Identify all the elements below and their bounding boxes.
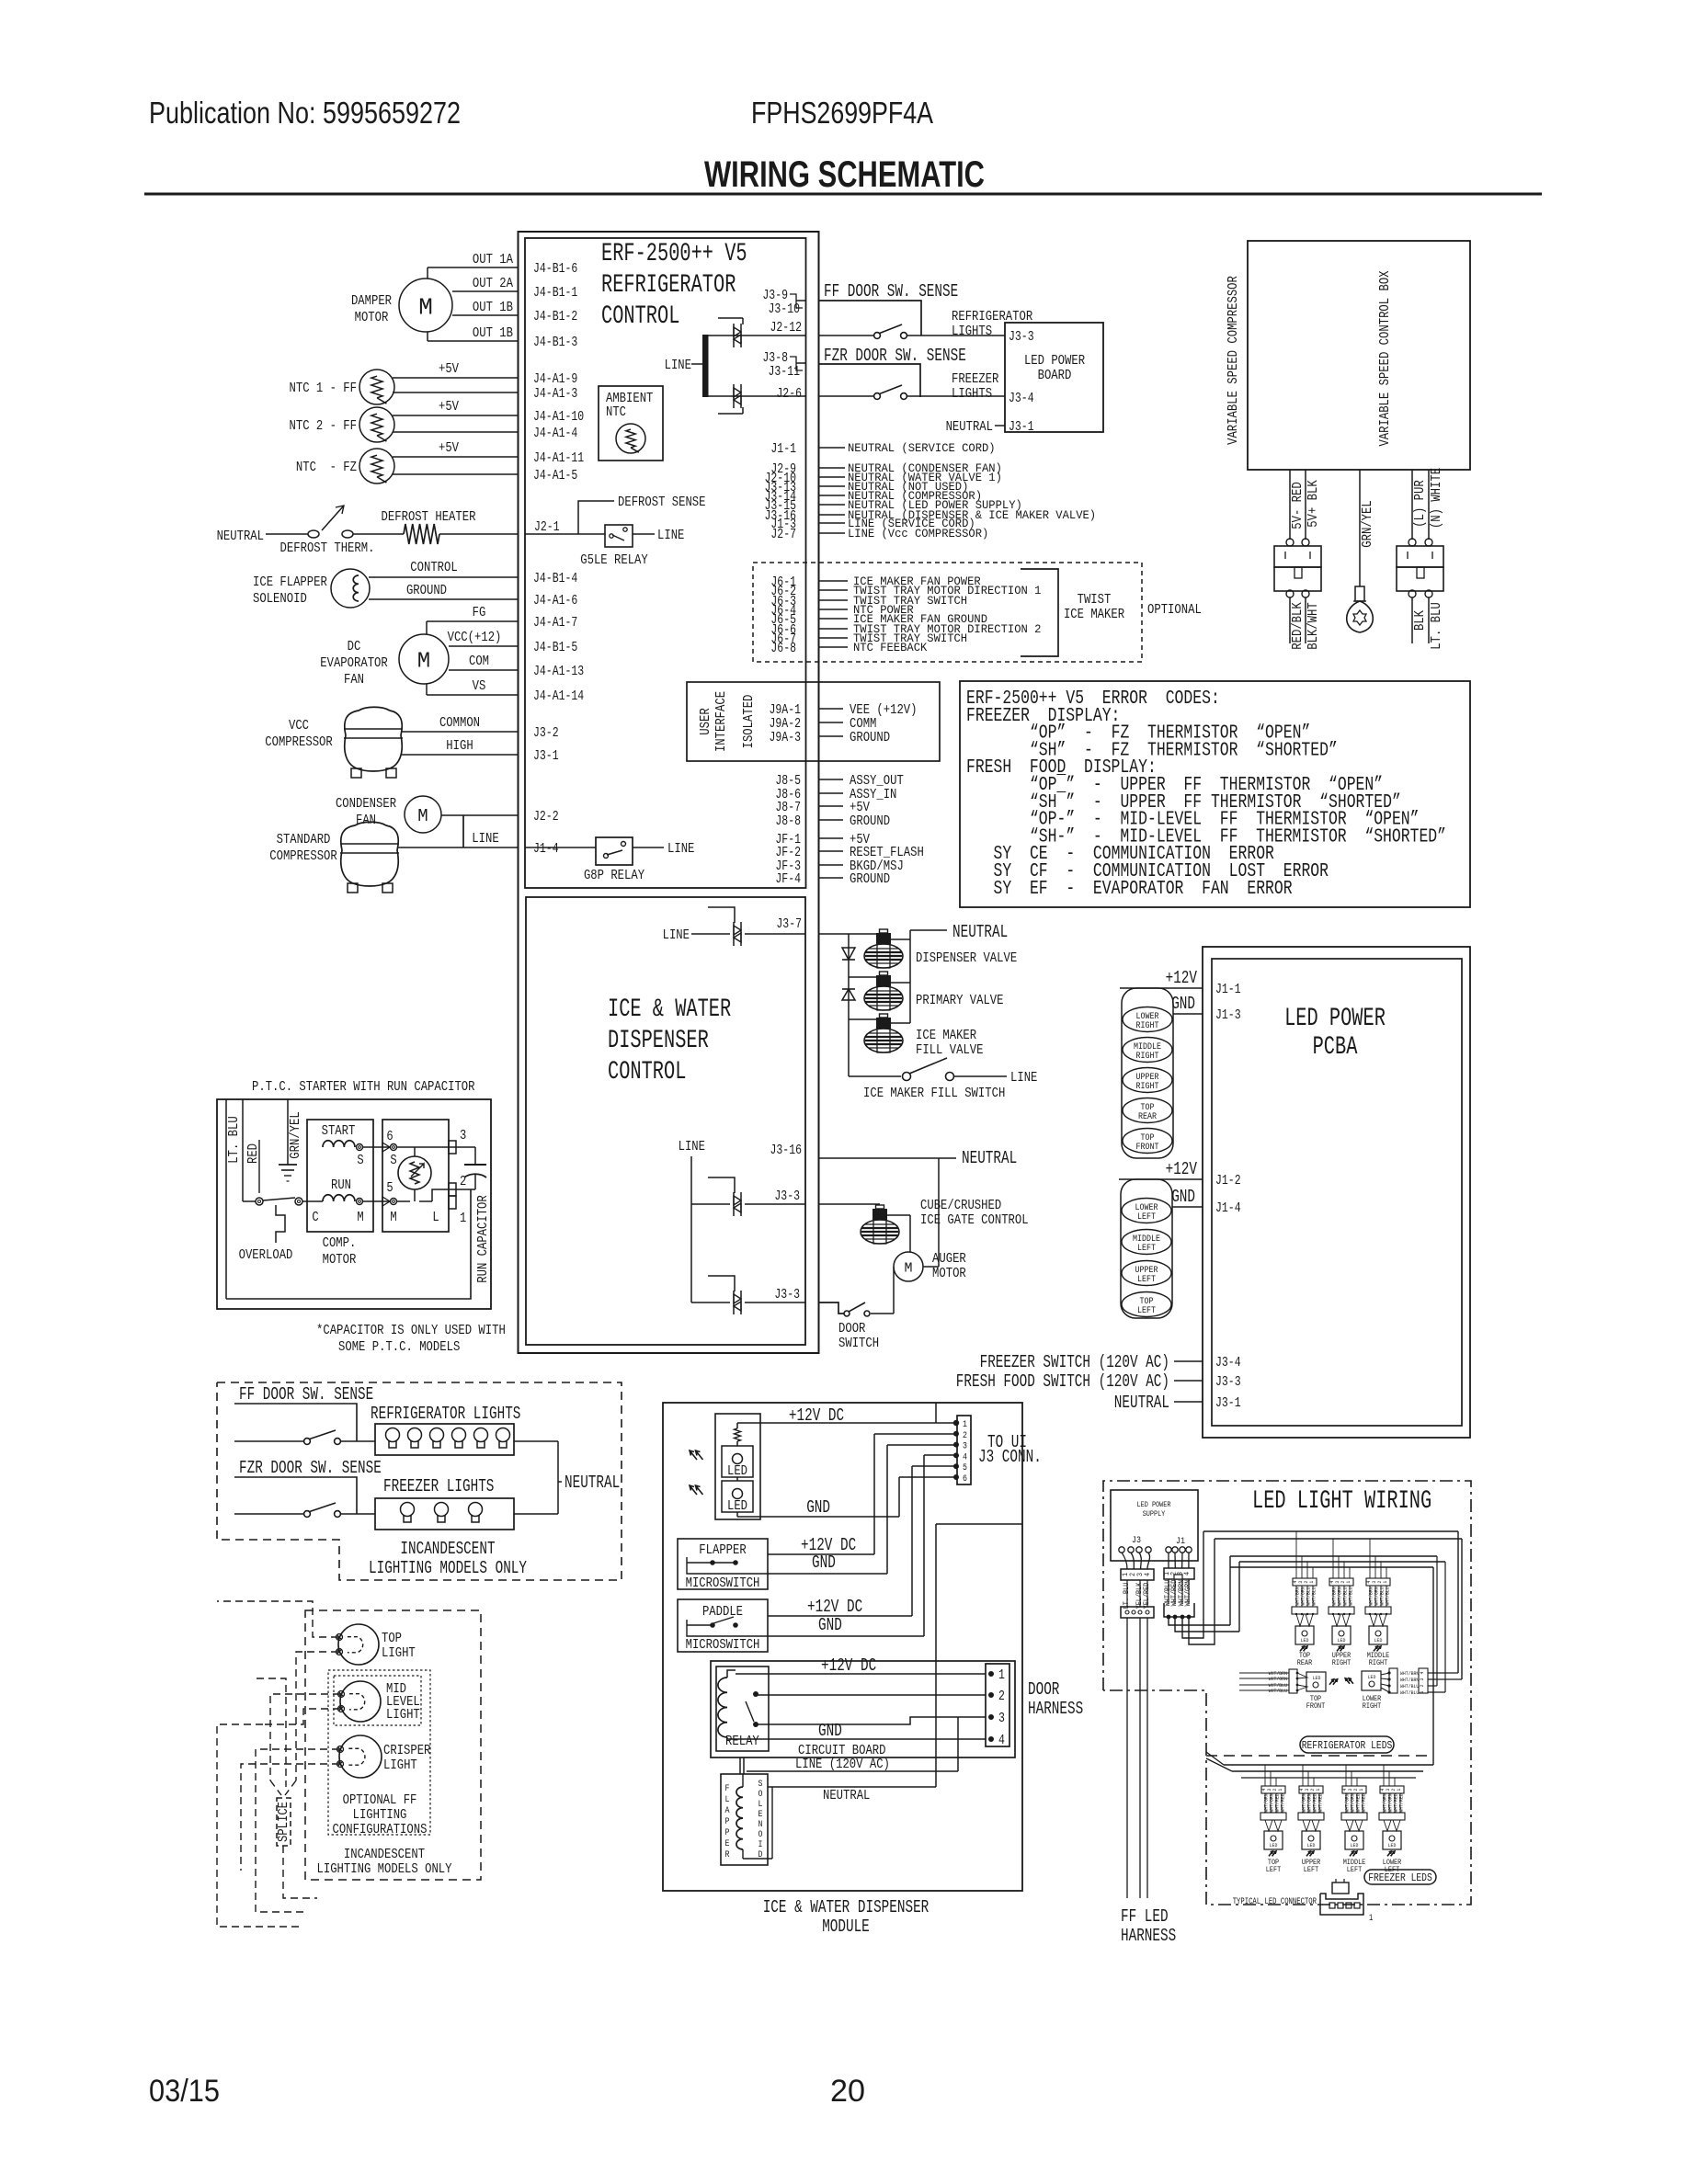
svg-text:S: S (390, 1153, 396, 1168)
svg-text:5V+ BLK: 5V+ BLK (1306, 480, 1321, 527)
svg-text:LED POWER: LED POWER (1024, 353, 1085, 369)
wire S to ptc (363, 1146, 390, 1148)
splice arrows (257, 1678, 286, 1787)
svg-text:WHT/RED: WHT/RED (1279, 1793, 1285, 1813)
svg-text:SOLENOID: SOLENOID (253, 591, 307, 607)
svg-text:NEUTRAL: NEUTRAL (952, 922, 1008, 942)
resistor led (735, 1428, 741, 1441)
wire FZR sense (818, 364, 920, 397)
svg-text:LED: LED (1270, 1842, 1278, 1848)
svg-text:GND: GND (1171, 1187, 1195, 1207)
svg-text:SWITCH: SWITCH (838, 1336, 879, 1351)
svg-text:ICE MAKER FILL SWITCH: ICE MAKER FILL SWITCH (863, 1086, 1005, 1101)
thermistor NTC 1 - FF (359, 370, 394, 404)
node LINE bar (702, 335, 709, 397)
top light lamp (338, 1624, 379, 1665)
svg-text:O: O (758, 1830, 763, 1840)
wire J3-3 out gate (818, 1203, 880, 1205)
svg-text:GND: GND (812, 1553, 836, 1573)
ice maker fill switch (849, 1075, 901, 1077)
svg-text:INTERFACE: INTERFACE (713, 691, 729, 752)
svg-text:LEFT: LEFT (1137, 1275, 1156, 1285)
stadium FREEZER LEDS (1364, 1870, 1436, 1884)
wire line 120 (739, 1757, 741, 1774)
svg-text:P.T.C. STARTER WITH RUN CAPACI: P.T.C. STARTER WITH RUN CAPACITOR (252, 1079, 475, 1095)
svg-text:FF LED: FF LED (1121, 1906, 1169, 1927)
svg-text:LINE (120V AC): LINE (120V AC) (795, 1757, 890, 1772)
triac T5 (733, 1291, 735, 1314)
triac T4 (733, 1192, 735, 1216)
svg-text:LED: LED (1338, 1637, 1346, 1644)
led module UPPER RIGHT (1329, 1578, 1354, 1667)
wire (L) PUR (1411, 470, 1413, 540)
svg-text:4: 4 (998, 1734, 1005, 1748)
svg-text:+12V DC: +12V DC (821, 1655, 876, 1676)
wire M to ptc (363, 1200, 390, 1202)
svg-text:RIGHT: RIGHT (1332, 1659, 1352, 1667)
svg-text:EVAPORATOR: EVAPORATOR (320, 655, 388, 671)
svg-text:DEFROST HEATER: DEFROST HEATER (382, 509, 476, 525)
svg-text:LIGHT: LIGHT (383, 1757, 417, 1773)
switch fzr incand (304, 1511, 311, 1518)
wire NTC2 return (393, 431, 519, 433)
wire neutral to J3-1 (995, 425, 1005, 427)
wire LT. BLU (225, 1099, 227, 1299)
wire J2-12 feed (708, 335, 805, 336)
svg-text:FAN: FAN (356, 813, 376, 828)
svg-text:NEUTRAL: NEUTRAL (217, 529, 264, 544)
door harness connector (986, 1664, 1009, 1746)
svg-text:J2-12: J2-12 (770, 321, 803, 336)
led unit box (715, 1414, 760, 1519)
svg-text:6: 6 (963, 1474, 967, 1484)
wire RED/BLK (1289, 597, 1291, 643)
svg-text:OVERLOAD: OVERLOAD (239, 1247, 293, 1263)
right LED connector stack (1122, 988, 1173, 1158)
dashed wire top light (217, 1601, 338, 1637)
svg-text:J2-6: J2-6 (776, 387, 802, 402)
wires to UI pins (874, 1433, 956, 1435)
twist ice maker bracket (1021, 569, 1058, 656)
svg-text:MICROSWITCH: MICROSWITCH (686, 1637, 760, 1653)
svg-text:J1-1: J1-1 (1215, 983, 1241, 997)
wire NTC-FZ return (393, 473, 519, 475)
J1 supply pins (1166, 1547, 1171, 1553)
svg-text:NTC 2 - FF: NTC 2 - FF (290, 418, 358, 434)
wire fzr sense incand (234, 1477, 357, 1514)
svg-text:J1-4: J1-4 (533, 842, 559, 857)
svg-text:RUN: RUN (331, 1177, 351, 1193)
wire fzr switch row (234, 1513, 303, 1515)
svg-text:J1-2: J1-2 (1215, 1174, 1241, 1189)
DC evaporator fan motor (399, 634, 449, 684)
dashed wire splice down (283, 1846, 317, 1898)
svg-text:JF-2: JF-2 (775, 846, 801, 860)
svg-text:O: O (758, 1790, 763, 1800)
bulb refrigerator (452, 1428, 466, 1442)
left LED connector stack (1121, 1179, 1172, 1318)
svg-text:CONTROL: CONTROL (601, 302, 679, 331)
svg-text:20: 20 (830, 2074, 865, 2109)
svg-text:REFRIGERATOR LIGHTS: REFRIGERATOR LIGHTS (371, 1404, 520, 1424)
led power pcba outer box (1203, 947, 1470, 1438)
optional configurations dotted box (328, 1670, 430, 1835)
terminal 3 (449, 1141, 456, 1154)
svg-text:LINE: LINE (679, 1139, 705, 1155)
svg-text:GROUND: GROUND (850, 730, 890, 745)
svg-text:J3-9: J3-9 (762, 289, 788, 303)
wire J3-3 to door switch (818, 1302, 844, 1314)
bulb refrigerator (408, 1428, 422, 1442)
svg-text:DEFROST SENSE: DEFROST SENSE (618, 495, 706, 510)
svg-text:1: 1 (963, 1420, 967, 1430)
dashed bus left (217, 1724, 299, 1927)
svg-text:CONFIGURATIONS: CONFIGURATIONS (333, 1822, 428, 1837)
svg-text:PADDLE: PADDLE (702, 1604, 743, 1620)
svg-text:WHT/BLU: WHT/BLU (1347, 1587, 1353, 1605)
dispenser valve (880, 929, 888, 933)
wire OUT 1B lower (428, 340, 519, 342)
svg-text:MOTOR: MOTOR (323, 1252, 357, 1268)
incandescent dashed box (217, 1382, 622, 1580)
svg-text:ICE MAKER: ICE MAKER (1064, 607, 1124, 622)
refrigerator control inner box (525, 238, 806, 888)
wire compressor LINE (398, 847, 519, 848)
svg-text:DISPENSER VALVE: DISPENSER VALVE (916, 950, 1017, 966)
svg-text:COMMON: COMMON (439, 715, 480, 731)
svg-text:I: I (758, 1840, 763, 1850)
refrigerator lights box (375, 1424, 514, 1455)
svg-text:LED: LED (1307, 1842, 1316, 1848)
svg-text:RUN CAPACITOR: RUN CAPACITOR (475, 1195, 491, 1283)
LED power board box (1005, 323, 1103, 432)
svg-text:J4-A1-3: J4-A1-3 (533, 387, 577, 402)
svg-text:J1-3: J1-3 (1215, 1008, 1241, 1023)
dashed wire crisper (256, 1749, 339, 1912)
wire BLK (1411, 597, 1413, 643)
svg-text:LINE: LINE (663, 927, 690, 943)
svg-text:J9A-2: J9A-2 (770, 717, 802, 732)
svg-text:REAR: REAR (1297, 1659, 1313, 1667)
ice maker fill valve (880, 1014, 888, 1018)
svg-text:4: 4 (963, 1452, 967, 1462)
svg-text:6: 6 (386, 1129, 393, 1144)
dashed divider (1206, 1755, 1431, 1757)
LED D1 module (722, 1446, 753, 1477)
svg-text:ERF-2500++ V5: ERF-2500++ V5 (601, 240, 747, 268)
svg-text:3: 3 (963, 1442, 967, 1452)
svg-text:J3-11: J3-11 (769, 365, 801, 380)
svg-text:LED LIGHT WIRING: LED LIGHT WIRING (1252, 1487, 1431, 1516)
svg-text:FG: FG (473, 605, 486, 620)
svg-text:L: L (758, 1800, 763, 1810)
svg-text:+12V: +12V (1166, 968, 1198, 988)
svg-text:LINE: LINE (1010, 1070, 1037, 1086)
svg-text:CRISPER: CRISPER (383, 1743, 430, 1758)
svg-text:S: S (357, 1153, 363, 1168)
svg-text:J4-B1-5: J4-B1-5 (533, 641, 577, 655)
svg-text:LT. BLU: LT. BLU (1429, 602, 1444, 649)
svg-text:TYPICAL LED CONNECTOR: TYPICAL LED CONNECTOR (1233, 1897, 1317, 1907)
svg-text:5V- RED: 5V- RED (1290, 482, 1306, 529)
thermistor NTC 2 - FF (359, 407, 394, 442)
wire LINE to triac auger (691, 1302, 730, 1303)
svg-text:S: S (758, 1780, 763, 1790)
bulb refrigerator (430, 1428, 444, 1442)
svg-text:START: START (322, 1123, 356, 1139)
wire (N) WHITE (1428, 470, 1430, 540)
svg-text:J3-8: J3-8 (762, 351, 788, 366)
ice water dispenser control box (526, 897, 805, 1345)
svg-text:ICE & WATER: ICE & WATER (608, 995, 731, 1024)
wire G8P LINE (633, 847, 664, 848)
led module LOWER LEFT (1379, 1786, 1405, 1874)
svg-text:J3-3: J3-3 (1009, 330, 1034, 345)
wire valve to bus (886, 1214, 910, 1216)
svg-text:RIGHT: RIGHT (1369, 1659, 1388, 1667)
ambient NTC box (599, 386, 663, 461)
J1 harness connector (1164, 1603, 1194, 1617)
wire OUT 1B (452, 314, 519, 316)
wire J2-6 to switch (818, 395, 873, 397)
svg-text:OUT 1B: OUT 1B (473, 300, 513, 315)
svg-text:J4-A1-14: J4-A1-14 (533, 689, 584, 704)
led module MIDDLE RIGHT (1365, 1578, 1391, 1667)
svg-text:TOP: TOP (382, 1631, 402, 1646)
wire RED (242, 1099, 244, 1201)
svg-text:DOOR: DOOR (1028, 1679, 1060, 1700)
svg-text:REFRIGERATOR: REFRIGERATOR (601, 271, 736, 300)
svg-text:LEFT: LEFT (1266, 1866, 1282, 1874)
wire terminal1 bottom (226, 1189, 471, 1299)
node valve column (848, 934, 850, 1076)
svg-text:J4-B1-6: J4-B1-6 (533, 262, 577, 277)
wire neutral lights (514, 1440, 558, 1442)
svg-text:FF DOOR SW. SENSE: FF DOOR SW. SENSE (239, 1384, 373, 1405)
svg-text:REFRIGERATOR LEDS: REFRIGERATOR LEDS (1302, 1739, 1393, 1752)
svg-text:E: E (725, 1839, 730, 1849)
svg-text:WHT/BRN: WHT/BRN (1400, 1670, 1419, 1677)
ptc starter outer box (217, 1099, 491, 1309)
svg-text:J1-4: J1-4 (1215, 1201, 1241, 1216)
connector UPPER LEFT (1122, 1261, 1171, 1286)
svg-text:D: D (758, 1850, 763, 1860)
svg-text:GRN/YEL: GRN/YEL (288, 1111, 303, 1158)
svg-text:WHT/BRN: WHT/BRN (1400, 1677, 1419, 1683)
svg-text:FAN: FAN (344, 672, 364, 688)
svg-text:3: 3 (998, 1712, 1005, 1726)
svg-text:J4-B1-3: J4-B1-3 (533, 336, 577, 350)
neutral bus valves (909, 930, 911, 1023)
svg-text:VCC(+12): VCC(+12) (448, 630, 502, 645)
svg-text:CONDENSER: CONDENSER (336, 796, 396, 812)
ptc starter box (382, 1120, 449, 1232)
wire COMMON (402, 731, 519, 733)
auger motor (894, 1252, 923, 1281)
svg-text:A: A (725, 1806, 730, 1816)
switch ff incand (304, 1439, 311, 1445)
wire run to overload (302, 1200, 323, 1202)
switch FF door (874, 333, 881, 339)
svg-text:HARNESS: HARNESS (1121, 1926, 1176, 1946)
dashed wire mid light (270, 1694, 340, 1780)
svg-text:LINE: LINE (472, 831, 498, 847)
ambient NTC thermistor (616, 424, 645, 453)
led power supply box (1111, 1490, 1198, 1561)
twist ice maker dashed box (753, 563, 1142, 662)
wire 5V- RED (1289, 470, 1291, 540)
wire neutral defrost (266, 533, 308, 535)
run winding (323, 1195, 355, 1201)
triac T1 (733, 324, 735, 347)
wire +5V NTC1 (393, 377, 519, 379)
wire to primary valve (849, 976, 878, 978)
svg-text:INCANDESCENT: INCANDESCENT (400, 1539, 495, 1559)
svg-text:(N) WHITE: (N) WHITE (1429, 468, 1444, 529)
svg-text:SPLICE: SPLICE (276, 1802, 291, 1842)
ff led harness wires (1126, 1618, 1128, 1898)
J3 harness connector (1121, 1607, 1154, 1618)
svg-text:+5V: +5V (439, 361, 459, 377)
svg-text:LIGHT: LIGHT (386, 1707, 420, 1723)
wire J3-7 out (818, 933, 878, 935)
svg-text:BLK: BLK (1412, 610, 1428, 631)
svg-text:WHT/RED: WHT/RED (1397, 1793, 1404, 1813)
primary valve (880, 972, 888, 975)
defrost thermostat (308, 530, 319, 538)
svg-text:J4-A1-5: J4-A1-5 (533, 469, 577, 483)
svg-text:GROUND: GROUND (850, 871, 890, 887)
wire LINE to bar (691, 363, 702, 365)
svg-text:FF DOOR SW. SENSE: FF DOOR SW. SENSE (824, 281, 958, 301)
J1 supply connector (1164, 1568, 1194, 1579)
svg-text:NEUTRAL (SERVICE CORD): NEUTRAL (SERVICE CORD) (848, 441, 996, 455)
relay G8P (596, 837, 633, 865)
svg-text:M: M (357, 1210, 363, 1225)
svg-text:J3-4: J3-4 (1215, 1356, 1241, 1371)
wire door 3 (756, 1717, 986, 1724)
svg-text:3: 3 (460, 1128, 466, 1143)
led module TOP LEFT (1260, 1786, 1286, 1874)
bulb refrigerator (386, 1428, 400, 1442)
svg-text:LEFT: LEFT (1347, 1866, 1363, 1874)
svg-text:SUPPLY: SUPPLY (1143, 1510, 1166, 1519)
ground lug (1355, 586, 1364, 601)
wire J2-6 feed (708, 395, 805, 397)
error codes box (960, 681, 1470, 907)
svg-text:ICE MAKER: ICE MAKER (916, 1028, 976, 1043)
svg-text:FILL VALVE: FILL VALVE (916, 1042, 984, 1058)
triac T2 (733, 384, 735, 408)
svg-text:J4-A1-4: J4-A1-4 (533, 427, 577, 441)
wire OUT 1A (428, 267, 519, 268)
bulb freezer (469, 1503, 483, 1517)
svg-text:+12V: +12V (1166, 1159, 1198, 1179)
title rule (144, 193, 1542, 196)
svg-text:LIGHTING MODELS ONLY: LIGHTING MODELS ONLY (317, 1861, 452, 1877)
svg-text:GND: GND (818, 1721, 842, 1741)
wire GND left stack (1172, 1206, 1203, 1208)
svg-text:*CAPACITOR IS ONLY USED WITH: *CAPACITOR IS ONLY USED WITH (316, 1323, 506, 1338)
svg-text:COMP.: COMP. (323, 1235, 357, 1251)
bulb freezer (401, 1503, 415, 1517)
wire +12V right stack (1120, 987, 1203, 989)
wire GND right stack (1173, 1013, 1203, 1015)
svg-text:SOME P.T.C. MODELS: SOME P.T.C. MODELS (338, 1339, 460, 1355)
switch FZR door (874, 393, 881, 400)
svg-text:J9A-1: J9A-1 (770, 703, 802, 718)
svg-text:GROUND: GROUND (850, 813, 890, 829)
svg-text:03/15: 03/15 (149, 2074, 220, 2109)
wire J3-16 neutral (818, 1157, 956, 1159)
svg-text:LED: LED (1368, 1674, 1376, 1680)
svg-text:J4-A1-13: J4-A1-13 (533, 665, 584, 679)
svg-text:WHT/BLU: WHT/BLU (1400, 1683, 1419, 1689)
J3 supply pins (1119, 1547, 1124, 1553)
svg-text:5: 5 (386, 1180, 393, 1196)
svg-text:GROUND: GROUND (406, 583, 447, 598)
svg-text:+12V DC: +12V DC (807, 1597, 862, 1617)
wire J1-4 to G8P (525, 847, 596, 848)
svg-text:NEUTRAL: NEUTRAL (946, 419, 993, 435)
svg-text:P: P (725, 1828, 730, 1838)
TO UI connector (957, 1416, 971, 1484)
svg-text:NTC FEEBACK: NTC FEEBACK (853, 641, 927, 654)
svg-text:WHT/RED: WHT/RED (1360, 1793, 1366, 1813)
svg-text:FREEZER SWITCH (120V AC): FREEZER SWITCH (120V AC) (980, 1352, 1169, 1372)
wire to ice maker fill valve (849, 1018, 878, 1020)
svg-text:INCANDESCENT: INCANDESCENT (344, 1847, 425, 1862)
svg-text:J2-7: J2-7 (770, 528, 796, 542)
door switch (844, 1311, 850, 1316)
svg-text:FPHS2699PF4A: FPHS2699PF4A (751, 96, 933, 130)
dispenser module box (663, 1403, 1022, 1891)
svg-text:L: L (432, 1210, 439, 1225)
svg-text:L: L (725, 1795, 730, 1805)
connector LOWER RIGHT (1123, 1007, 1172, 1032)
svg-text:LIGHTS: LIGHTS (952, 386, 992, 402)
svg-text:RIGHT: RIGHT (1136, 1082, 1159, 1092)
svg-text:J6-8: J6-8 (770, 642, 796, 656)
ptc internal wires (397, 1146, 475, 1148)
svg-text:NEUTRAL: NEUTRAL (823, 1788, 870, 1803)
wire CONTROL (369, 576, 519, 578)
svg-text:LEFT: LEFT (1304, 1866, 1319, 1874)
led flash 1 (690, 1450, 697, 1460)
svg-text:J4-A1-9: J4-A1-9 (533, 372, 577, 387)
svg-text:TWIST: TWIST (1078, 592, 1112, 608)
wire J2-12 to switch (818, 335, 873, 336)
wire neutral module (768, 1786, 936, 1788)
optional ff lighting dashed box (305, 1610, 481, 1880)
wire GROUND (369, 598, 519, 600)
svg-text:J3-10: J3-10 (769, 302, 801, 317)
svg-text:WIRING SCHEMATIC: WIRING SCHEMATIC (704, 154, 985, 195)
wire ff switch row (234, 1440, 303, 1442)
svg-text:LEFT: LEFT (1137, 1212, 1156, 1223)
freezer bus wires (1224, 1764, 1433, 1766)
svg-text:1: 1 (1369, 1914, 1373, 1924)
svg-text:LIGHTS: LIGHTS (952, 324, 992, 339)
relay G5LE (605, 525, 633, 547)
mid level dotted box (334, 1676, 421, 1725)
wire switch to J3-3 (907, 335, 1005, 336)
svg-text:SY EF - EVAPORATOR FAN ER: SY EF - EVAPORATOR FAN ERROR (966, 879, 1293, 900)
svg-text:J4-A1-7: J4-A1-7 (533, 616, 577, 631)
svg-text:J3: J3 (1132, 1536, 1141, 1546)
diode D2 (842, 989, 855, 1000)
svg-text:FRONT: FRONT (1306, 1702, 1326, 1711)
